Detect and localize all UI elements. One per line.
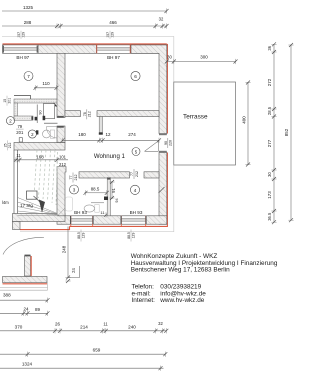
svg-text:30: 30 <box>267 172 272 177</box>
svg-text:201: 201 <box>16 130 24 135</box>
svg-text:6: 6 <box>134 74 137 79</box>
room 5 <box>132 148 140 156</box>
terrace door label 90/220 <box>164 138 173 148</box>
svg-text:272: 272 <box>267 78 272 86</box>
svg-text:11: 11 <box>16 153 21 158</box>
svg-text:90: 90 <box>164 141 168 145</box>
dim 1324 <box>0 367 164 369</box>
svg-text:300: 300 <box>200 55 208 60</box>
right wall upper (hatched) <box>131 45 167 134</box>
toilet <box>43 130 51 138</box>
door label 78/212 <box>83 109 92 119</box>
red right wall line upper <box>166 44 168 134</box>
chain B line <box>290 45 292 221</box>
stoop steps lines <box>0 283 48 291</box>
ticks row1 <box>165 8 169 13</box>
svg-text:24: 24 <box>71 268 76 273</box>
stair direction arrow <box>39 200 45 213</box>
svg-text:129: 129 <box>110 32 114 38</box>
room 3 <box>70 185 79 194</box>
svg-text:77: 77 <box>69 176 73 180</box>
svg-text:400: 400 <box>242 116 247 124</box>
svg-text:129: 129 <box>81 233 85 239</box>
dim 91 vertical <box>111 181 113 199</box>
dashed opening lines <box>34 150 58 205</box>
dim 400 line <box>247 82 249 165</box>
room 4 <box>130 185 139 194</box>
stair treads fan <box>18 198 66 217</box>
red top wall line <box>3 43 167 45</box>
svg-text:274: 274 <box>128 132 136 137</box>
svg-text:212: 212 <box>59 162 67 167</box>
svg-text:110: 110 <box>42 81 50 86</box>
svg-text:88.5: 88.5 <box>91 187 100 192</box>
svg-text:Wohnung 1: Wohnung 1 <box>94 153 126 160</box>
shelf line <box>44 122 58 124</box>
red line at post <box>30 256 32 276</box>
bathtub faint <box>66 197 73 211</box>
svg-text:32: 32 <box>159 17 164 22</box>
wall tick mark right <box>159 187 165 193</box>
ticks row2 <box>55 23 59 28</box>
partition dim 11 <box>100 210 108 218</box>
door gap nubs <box>57 116 64 118</box>
svg-text:15: 15 <box>3 99 7 103</box>
svg-text:77: 77 <box>130 172 134 176</box>
window bottom A <box>71 216 94 227</box>
svg-text:201: 201 <box>7 98 11 104</box>
svg-text:88.5: 88.5 <box>127 232 131 239</box>
door label 77/212 left <box>69 173 78 183</box>
svg-text:88.5: 88.5 <box>77 232 81 239</box>
svg-text:370: 370 <box>15 324 23 329</box>
small line <box>91 202 104 204</box>
svg-text:214: 214 <box>80 324 88 329</box>
svg-text:277: 277 <box>267 139 272 147</box>
right wall lower (hatched) <box>159 153 167 225</box>
column base cap <box>99 133 103 135</box>
svg-text:129: 129 <box>131 233 135 239</box>
svg-text:129: 129 <box>21 32 25 38</box>
lower piece with stub <box>57 167 66 216</box>
band left piece <box>65 111 81 117</box>
svg-text:28.5: 28.5 <box>267 106 272 115</box>
window bottom B <box>121 216 146 227</box>
piece below door <box>57 126 65 143</box>
sink ellipse <box>84 205 94 212</box>
WC top edge line <box>14 96 31 100</box>
upper piece <box>57 53 65 117</box>
svg-text:3: 3 <box>73 188 76 193</box>
band left piece <box>79 172 130 178</box>
svg-text:www.hv-wkz.de: www.hv-wkz.de <box>159 297 204 304</box>
WC doorway edge line <box>36 105 38 124</box>
red right wall line lower <box>166 153 168 227</box>
WC door 90 label <box>39 110 43 114</box>
svg-text:4: 4 <box>134 188 137 193</box>
svg-text:248: 248 <box>62 245 67 253</box>
partition top cap <box>107 178 110 180</box>
svg-text:32: 32 <box>158 321 163 326</box>
svg-text:659: 659 <box>93 348 101 353</box>
threshold square <box>19 138 22 142</box>
door label 77/212 right <box>130 169 139 179</box>
svg-text:1324: 1324 <box>22 362 33 367</box>
dim line 288/466/32 <box>2 25 167 27</box>
wall segment A (hatched) <box>38 45 97 53</box>
wall piece incl corner <box>146 216 167 224</box>
terrace door leaf triangle <box>145 141 159 152</box>
svg-text:12: 12 <box>105 132 111 137</box>
svg-text:466: 466 <box>109 20 117 25</box>
svg-text:36.5: 36.5 <box>267 212 272 221</box>
svg-text:220: 220 <box>169 140 173 146</box>
WC door hinge blob <box>43 116 46 120</box>
dim 94 small <box>115 198 119 202</box>
entrance post <box>25 256 31 276</box>
dim 300 line <box>167 61 236 63</box>
svg-text:25: 25 <box>4 143 8 147</box>
hall door swing (2) <box>46 127 57 139</box>
dim line 1325 <box>2 10 167 12</box>
svg-text:101: 101 <box>59 154 67 159</box>
svg-text:240: 240 <box>128 324 136 329</box>
band right piece <box>97 111 159 117</box>
svg-text:94: 94 <box>115 198 119 202</box>
svg-text:BH 97: BH 97 <box>16 55 29 60</box>
svg-text:212: 212 <box>8 142 12 148</box>
entrance pillar <box>13 222 21 230</box>
stair landing rect <box>27 191 38 199</box>
window B top <box>97 44 131 53</box>
svg-text:79: 79 <box>17 124 22 129</box>
red bottom wall line <box>70 225 168 227</box>
bottom window jamb nubs <box>70 216 147 224</box>
svg-text:78: 78 <box>83 112 87 116</box>
stoop slab <box>3 277 48 283</box>
thin column <box>99 117 102 133</box>
WC door hinge tick <box>54 103 57 107</box>
wall segment B (hatched, wraps corner) <box>131 45 167 53</box>
svg-text:212: 212 <box>88 111 92 117</box>
WC foot band <box>14 116 33 120</box>
room 7 <box>24 72 33 81</box>
terrace door jamb nubs <box>159 134 167 136</box>
band right piece <box>144 172 159 178</box>
dim 659 <box>0 353 166 355</box>
svg-text:157: 157 <box>106 32 110 38</box>
svg-text:90: 90 <box>39 110 43 114</box>
svg-text:Internet:: Internet: <box>132 297 156 304</box>
svg-text:BH 93: BH 93 <box>130 210 143 215</box>
room 6 <box>131 71 140 80</box>
red line under stoop <box>3 283 48 285</box>
svg-text:388: 388 <box>3 293 11 298</box>
svg-text:11: 11 <box>103 321 108 326</box>
svg-text:BH 97: BH 97 <box>107 55 120 60</box>
wall piece <box>57 216 71 224</box>
WC door hinge marks <box>35 117 38 121</box>
room 2a <box>6 117 14 125</box>
vanity rect <box>95 205 99 213</box>
hall band (hatched) <box>14 143 65 151</box>
svg-text:288: 288 <box>24 20 32 25</box>
svg-text:212: 212 <box>135 171 139 177</box>
WC top wall band <box>14 99 58 103</box>
svg-text:173: 173 <box>267 191 272 199</box>
room 2b <box>28 130 36 138</box>
24 bracket <box>68 266 80 278</box>
svg-text:24: 24 <box>23 307 29 312</box>
svg-text:17 Stg: 17 Stg <box>20 203 33 208</box>
left band <box>13 214 66 222</box>
label 25/212 <box>4 140 12 150</box>
svg-text:l4m: l4m <box>2 200 9 205</box>
svg-text:30: 30 <box>167 55 172 60</box>
hall left wall <box>14 150 18 214</box>
svg-text:1325: 1325 <box>23 5 34 10</box>
chain A line <box>273 44 275 223</box>
svg-text:7: 7 <box>27 74 30 79</box>
partition door hinge <box>104 197 108 201</box>
wall piece <box>93 216 121 224</box>
dim row 370/26/214/11/240/32 <box>0 330 167 332</box>
red bottom step <box>20 226 70 229</box>
svg-text:36: 36 <box>267 45 272 50</box>
svg-text:Terrasse: Terrasse <box>183 113 208 120</box>
svg-text:91: 91 <box>111 188 116 193</box>
WC door leaf <box>44 104 55 119</box>
svg-text:26: 26 <box>55 321 61 326</box>
WC foot cap <box>31 116 33 120</box>
window sill label 88.5/129 right <box>127 230 135 242</box>
entrance door swing arc <box>3 237 44 254</box>
svg-text:168: 168 <box>36 154 44 159</box>
window A top <box>3 45 39 53</box>
window sill label 88.5/129 left <box>77 230 85 242</box>
svg-text:Bentschener Weg 17, 12683 Berl: Bentschener Weg 17, 12683 Berlin <box>131 266 230 273</box>
svg-text:212: 212 <box>74 175 78 181</box>
svg-text:89: 89 <box>35 307 41 312</box>
svg-text:BH 93: BH 93 <box>74 210 87 215</box>
svg-text:180: 180 <box>78 132 86 137</box>
svg-text:852: 852 <box>284 128 289 136</box>
svg-text:157: 157 <box>17 32 21 38</box>
window label 157/129 mid <box>106 31 114 39</box>
WC left wall <box>14 103 18 116</box>
label 15/201 <box>3 96 11 106</box>
window label 157/129 left <box>17 31 25 39</box>
